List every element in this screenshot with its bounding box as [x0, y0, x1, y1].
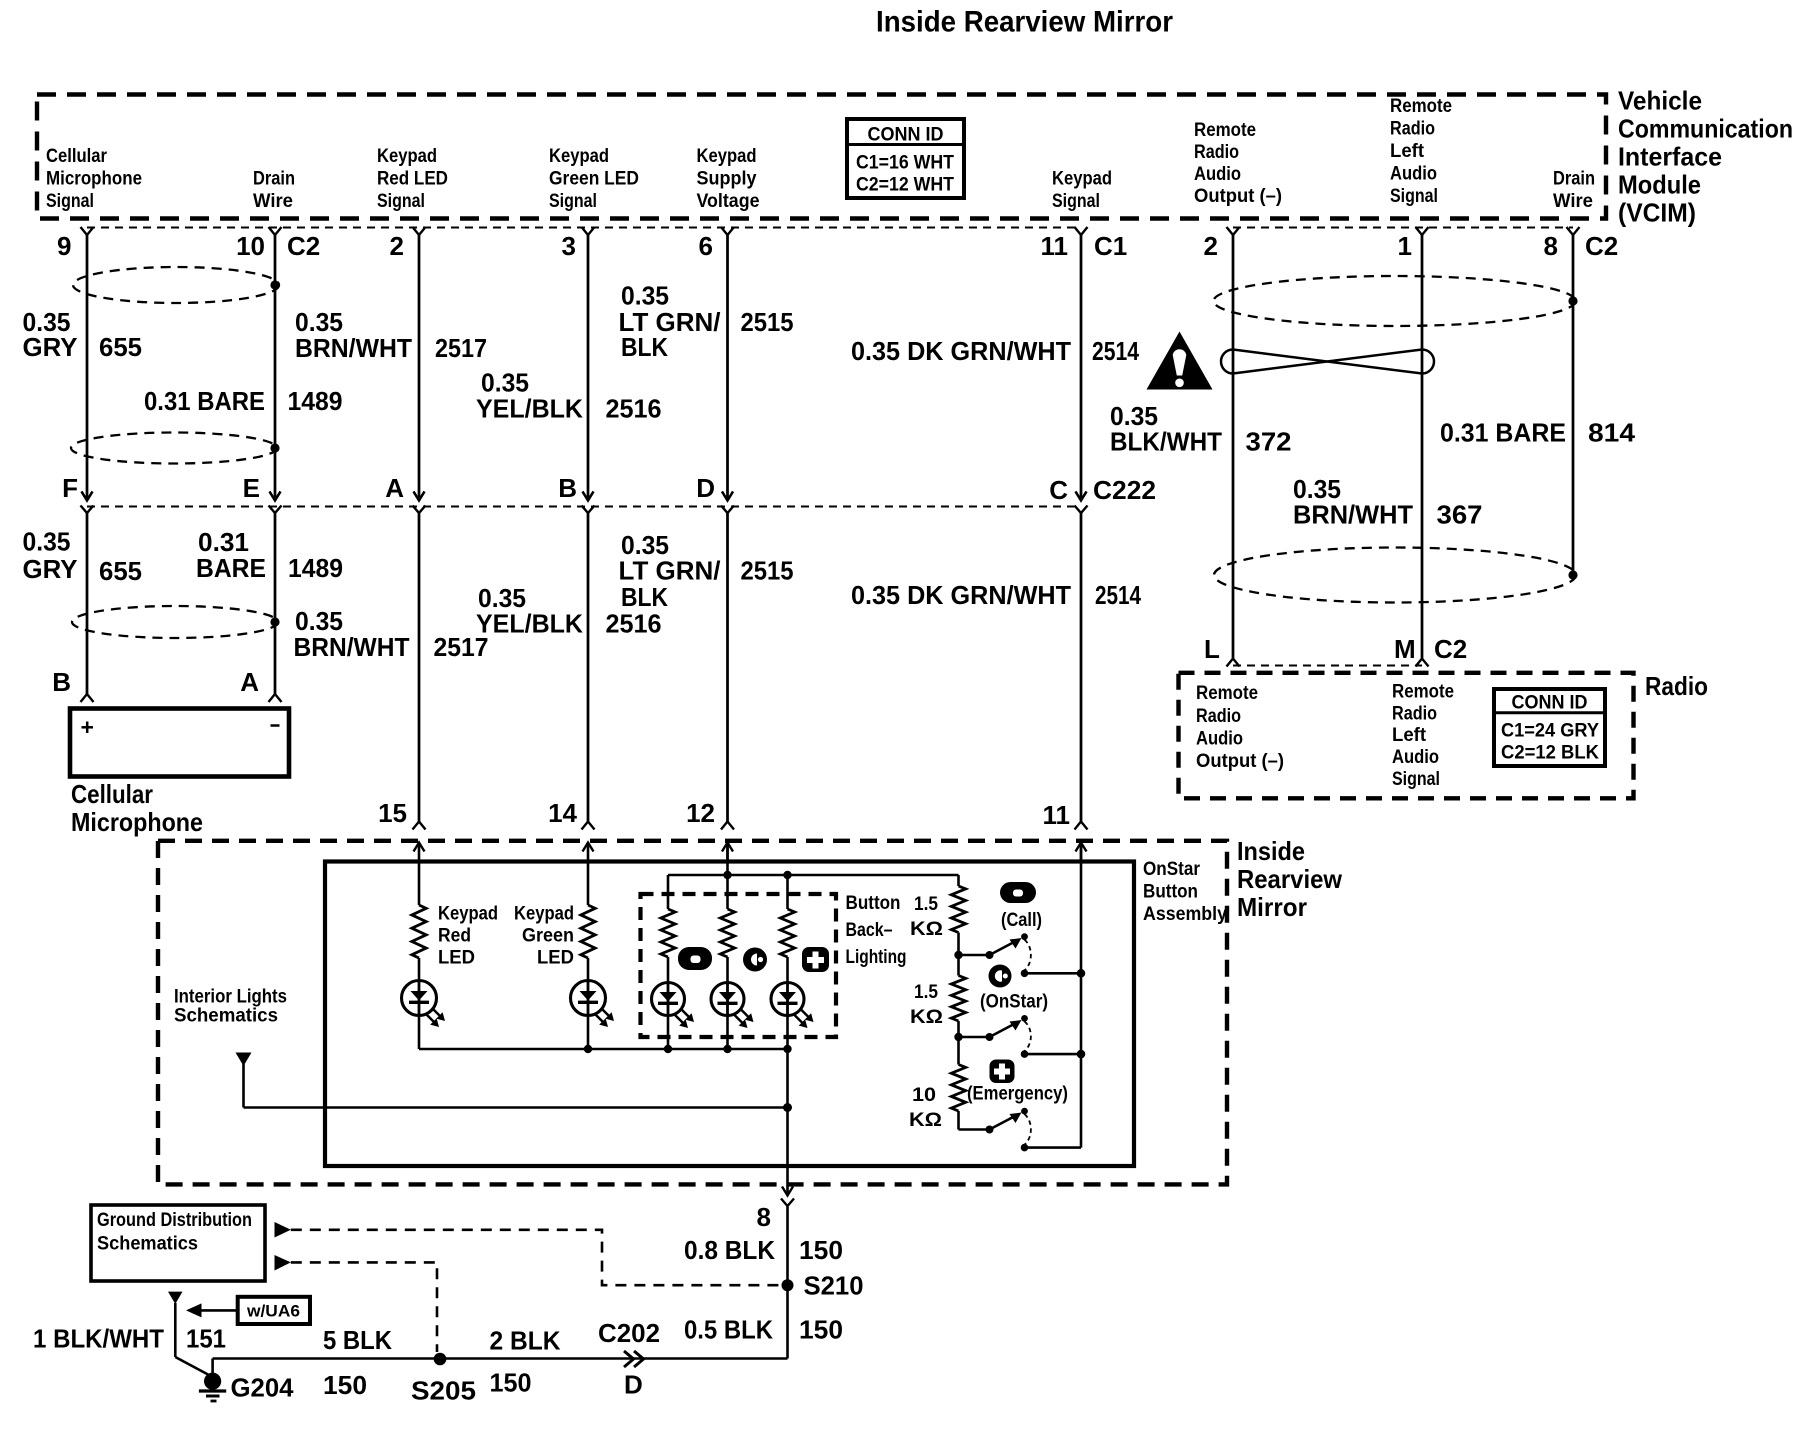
svg-text:150: 150: [323, 1370, 367, 1400]
svg-text:Radio: Radio: [1194, 142, 1239, 163]
wire 655 cellular microphone signal segment 1: [86, 235, 89, 501]
svg-text:Signal: Signal: [1390, 186, 1438, 207]
wire 2517 segment 2: [418, 513, 421, 822]
svg-text:BLK: BLK: [621, 332, 668, 362]
LED backlight 1: [652, 983, 685, 1016]
shield ellipse lower (mic signal/drain): [71, 433, 277, 464]
svg-text:Schematics: Schematics: [174, 1006, 278, 1027]
svg-text:(Call): (Call): [1001, 910, 1042, 931]
with UA6 option tag box: [238, 1297, 310, 1324]
svg-text:Wire: Wire: [1553, 191, 1593, 212]
dashed reference wire to S205: [291, 1262, 437, 1352]
svg-text:814: 814: [1588, 418, 1636, 448]
svg-text:Audio: Audio: [1390, 164, 1437, 185]
component cellular microphone box: [70, 709, 289, 777]
svg-text:Vehicle: Vehicle: [1618, 86, 1702, 116]
svg-text:Signal: Signal: [377, 191, 425, 212]
in-line connector C202 chevrons: [624, 1351, 634, 1367]
svg-text:150: 150: [799, 1315, 843, 1345]
svg-text:1: 1: [1398, 231, 1412, 261]
junction dot supply bus at middle backlight resistor: [723, 871, 731, 879]
svg-text:Remote: Remote: [1392, 682, 1454, 703]
svg-text:A: A: [240, 667, 259, 697]
svg-text:Signal: Signal: [1052, 191, 1100, 212]
svg-text:(VCIM): (VCIM): [1618, 198, 1696, 228]
svg-text:Keypad: Keypad: [1052, 169, 1112, 190]
resistor keypad green LED series: [587, 862, 590, 906]
svg-text:CONN ID: CONN ID: [868, 125, 944, 146]
svg-text:C2=12 BLK: C2=12 BLK: [1501, 743, 1599, 764]
splice dot on drain wire at lower shield: [270, 443, 279, 452]
ground G204 symbol: [204, 1373, 221, 1390]
VCIM terminal Y connector pin 9: [81, 227, 94, 235]
splice S205: [434, 1353, 447, 1366]
svg-text:D: D: [696, 473, 715, 503]
in-line connector C222 terminal A: [414, 492, 425, 501]
svg-text:Audio: Audio: [1392, 747, 1439, 768]
OnStar button assembly solid box: [325, 862, 1134, 1167]
in-line connector C222 dashed line: [87, 506, 1081, 508]
svg-text:C1: C1: [1094, 231, 1127, 261]
svg-text:Communication: Communication: [1618, 114, 1793, 144]
junction dot cathode bus at backlight 3: [783, 1045, 791, 1053]
svg-text:0.35: 0.35: [621, 281, 669, 311]
wire 2515 keypad supply segment 1: [726, 235, 729, 501]
svg-text:150: 150: [490, 1368, 532, 1398]
wire 2515 segment 2: [726, 513, 729, 822]
icon emergency button (switch): [990, 1060, 1015, 1084]
svg-text:Interface: Interface: [1618, 142, 1722, 172]
VCIM terminal Y connector pin 6 C1: [721, 227, 734, 235]
junction dot cathode bus at green LED: [584, 1045, 592, 1053]
switch SW3 emergency button: [959, 1128, 990, 1131]
svg-text:M: M: [1394, 634, 1416, 664]
wire keypad supply into bus: [726, 843, 729, 876]
svg-text:1 BLK/WHT: 1 BLK/WHT: [33, 1324, 164, 1354]
svg-text:655: 655: [99, 332, 142, 362]
svg-text:Output (–): Output (–): [1196, 751, 1284, 772]
in-line connector C222 terminal F: [82, 492, 93, 501]
wire 1489 drain wire segment 1: [274, 235, 277, 501]
LED backlight 2: [711, 983, 744, 1016]
VCIM terminal Y connector pin 10: [269, 227, 282, 235]
svg-text:BRN/WHT: BRN/WHT: [294, 632, 410, 662]
svg-text:LT GRN/: LT GRN/: [619, 556, 721, 586]
svg-text:L: L: [1204, 634, 1220, 664]
svg-text:Mirror: Mirror: [1237, 892, 1307, 922]
component Radio dashed box: [1179, 673, 1634, 799]
CONN ID table for radio connectors: [1494, 689, 1605, 766]
mic polarity minus: [271, 724, 280, 727]
svg-text:Red LED: Red LED: [377, 169, 448, 190]
svg-text:Radio: Radio: [1390, 119, 1435, 140]
resistor R3 10 Kohm: [951, 1065, 965, 1112]
svg-text:Microphone: Microphone: [46, 169, 142, 190]
wire 2514 segment 2: [1080, 513, 1083, 822]
module box U1 Vehicle Communication Interface Module (VCIM) dashed outline: [37, 95, 1606, 219]
shield ellipse upper right (audio pair/drain): [1214, 276, 1576, 326]
svg-text:Remote: Remote: [1194, 120, 1256, 141]
junction dot backlight return to ground wire: [783, 1103, 792, 1112]
LED keypad red: [402, 981, 437, 1016]
interior lights reference arrow 2 (solid triangle down): [168, 1292, 183, 1304]
reference arrow 2 to ground distribution: [275, 1255, 291, 1271]
svg-text:Button: Button: [846, 893, 901, 914]
svg-text:(Emergency): (Emergency): [967, 1084, 1068, 1105]
svg-text:Cellular: Cellular: [71, 779, 153, 809]
svg-text:9: 9: [57, 231, 71, 261]
wire 150 0.8 BLK segment: [786, 1206, 789, 1359]
switch SW1 call button: [959, 954, 990, 957]
mic polarity plus: [82, 726, 94, 729]
reference arrow 1 to ground distribution: [275, 1222, 291, 1238]
keypad signal bus from pin 11: [1080, 843, 1083, 1148]
svg-text:2514: 2514: [1095, 580, 1141, 610]
svg-text:Output (–): Output (–): [1194, 186, 1282, 207]
svg-text:B: B: [558, 473, 577, 503]
svg-text:Green: Green: [522, 926, 574, 947]
svg-text:Keypad: Keypad: [697, 146, 757, 167]
resistor R2 1.5 Kohm: [951, 976, 965, 1022]
twisted pair symbol between audio wires: [1221, 350, 1434, 374]
svg-text:Inside: Inside: [1237, 836, 1305, 866]
resistor backlight 1: [667, 875, 670, 909]
svg-text:0.5 BLK: 0.5 BLK: [684, 1315, 773, 1345]
svg-text:0.8 BLK: 0.8 BLK: [684, 1235, 775, 1265]
svg-text:Back–: Back–: [846, 920, 893, 941]
svg-text:B: B: [52, 667, 71, 697]
supply top bus in button assembly: [668, 874, 959, 877]
svg-text:2517: 2517: [435, 333, 487, 363]
svg-text:C1=16 WHT: C1=16 WHT: [856, 153, 954, 174]
wire 2516 segment 2: [587, 513, 590, 822]
junction dot cathode bus at backlight 1: [664, 1045, 672, 1053]
svg-text:Schematics: Schematics: [97, 1234, 198, 1255]
svg-text:A: A: [385, 473, 404, 503]
svg-text:8: 8: [757, 1202, 771, 1232]
arrow from UA6 tag to wire: [201, 1309, 238, 1312]
wire 367 remote radio left audio segment: [1421, 235, 1424, 659]
svg-text:2 BLK: 2 BLK: [490, 1326, 561, 1356]
splice dot on drain wire at upper shield: [270, 280, 279, 289]
svg-text:1489: 1489: [288, 553, 343, 583]
svg-text:2: 2: [1204, 231, 1218, 261]
resistor backlight 3: [786, 875, 789, 909]
junction dot cathode bus at backlight 2: [723, 1045, 731, 1053]
svg-text:C2: C2: [1434, 634, 1467, 664]
svg-text:GRY: GRY: [23, 332, 78, 362]
svg-text:1.5: 1.5: [914, 894, 938, 915]
warning triangle symbol: [1147, 332, 1213, 390]
svg-text:150: 150: [799, 1235, 843, 1265]
svg-text:Drain: Drain: [253, 169, 295, 190]
icon onstar button (backlight): [743, 948, 767, 972]
svg-text:Radio: Radio: [1196, 706, 1241, 727]
svg-text:Keypad: Keypad: [549, 146, 609, 167]
svg-text:12: 12: [686, 798, 715, 828]
in-line connector C222 terminal E: [270, 492, 281, 501]
svg-text:OnStar: OnStar: [1143, 859, 1201, 880]
wire 814 drain wire segment: [1572, 235, 1575, 575]
svg-text:Signal: Signal: [46, 191, 94, 212]
junction dot R1/R2: [954, 951, 962, 959]
radio connector dashed pin line: [1233, 665, 1422, 667]
wire 2514 keypad signal segment 1: [1080, 235, 1083, 501]
resistor chain top wire: [957, 875, 960, 886]
svg-text:Audio: Audio: [1194, 164, 1241, 185]
svg-text:KΩ: KΩ: [909, 1110, 942, 1131]
svg-text:367: 367: [1437, 500, 1483, 530]
svg-text:Red: Red: [438, 926, 471, 947]
shield ellipse (mic pair) section 2: [72, 606, 278, 638]
svg-text:2514: 2514: [1092, 336, 1139, 366]
svg-text:Radio: Radio: [1392, 704, 1437, 725]
junction dot SW1 throw on bus: [1077, 969, 1085, 977]
svg-text:YEL/BLK: YEL/BLK: [476, 394, 583, 424]
VCIM terminal Y connector pin 8 C2 drain: [1567, 227, 1580, 235]
switch SW2 onstar button: [959, 1036, 990, 1039]
LED cathode return bus: [419, 1048, 788, 1051]
svg-text:151: 151: [186, 1324, 226, 1354]
VCIM terminal Y connector pin 2 C1: [413, 227, 426, 235]
svg-text:C2: C2: [1585, 231, 1618, 261]
svg-text:LED: LED: [537, 948, 574, 969]
mirror box entry connector pin 12: [722, 843, 733, 852]
wire 372 remote radio audio output segment: [1232, 235, 1235, 659]
svg-text:BRN/WHT: BRN/WHT: [295, 333, 412, 363]
in-line connector C222 terminal B: [583, 492, 594, 501]
junction dot SW2 throw on bus: [1077, 1050, 1085, 1058]
svg-text:2: 2: [390, 231, 404, 261]
LED backlight 3: [771, 983, 804, 1016]
svg-text:372: 372: [1246, 427, 1292, 457]
resistor keypad red LED series: [418, 862, 421, 906]
svg-text:E: E: [243, 473, 260, 503]
svg-text:CONN ID: CONN ID: [1512, 693, 1588, 714]
svg-text:KΩ: KΩ: [910, 1007, 943, 1028]
svg-text:C: C: [1049, 475, 1068, 505]
VCIM connector pin row dashed line (right group): [1233, 227, 1573, 229]
resistor R1 1.5 Kohm: [951, 886, 965, 933]
mirror box exit connector (ground): [782, 1187, 793, 1196]
svg-text:BRN/WHT: BRN/WHT: [1293, 500, 1413, 530]
svg-text:Drain: Drain: [1553, 169, 1595, 190]
wire 1489 segment 2: [274, 513, 277, 694]
svg-text:Rearview: Rearview: [1237, 864, 1343, 894]
svg-text:0.35 DK GRN/WHT: 0.35 DK GRN/WHT: [851, 336, 1071, 366]
svg-text:2516: 2516: [606, 609, 662, 639]
svg-text:Left: Left: [1392, 725, 1427, 746]
in-line connector C222 terminal C: [1076, 492, 1087, 501]
svg-text:3: 3: [562, 231, 576, 261]
wire from interior lights reference: [242, 1064, 245, 1108]
svg-text:Keypad: Keypad: [438, 904, 498, 925]
svg-text:w/UA6: w/UA6: [246, 1302, 300, 1321]
svg-text:GRY: GRY: [23, 554, 78, 584]
button back-lighting dashed box: [641, 894, 837, 1037]
splice S210: [782, 1279, 794, 1291]
component Inside Rearview Mirror dashed box: [158, 841, 1227, 1185]
svg-text:10: 10: [236, 231, 265, 261]
svg-text:Cellular: Cellular: [46, 146, 108, 167]
svg-text:C2: C2: [287, 231, 320, 261]
svg-text:0.35 DK GRN/WHT: 0.35 DK GRN/WHT: [851, 580, 1071, 610]
svg-text:Button: Button: [1143, 882, 1198, 903]
svg-text:14: 14: [548, 798, 577, 828]
svg-text:BLK: BLK: [621, 582, 668, 612]
wire 151 1 BLK/WHT: [174, 1303, 177, 1357]
svg-text:1489: 1489: [288, 386, 343, 416]
VCIM connector pin row dashed line (C1/C2 pins left group): [87, 227, 1081, 229]
in-line connector C222 terminal D: [722, 492, 733, 501]
svg-text:KΩ: KΩ: [910, 919, 943, 940]
mirror box entry connector pin 14: [583, 843, 594, 852]
svg-text:5 BLK: 5 BLK: [323, 1325, 392, 1355]
svg-text:Remote: Remote: [1196, 683, 1258, 704]
mirror box entry connector pin 11: [1076, 843, 1087, 852]
svg-text:Signal: Signal: [549, 191, 597, 212]
dashed reference wire to S210: [291, 1230, 781, 1285]
svg-text:YEL/BLK: YEL/BLK: [476, 609, 583, 639]
ground distribution schematics reference box: [91, 1205, 265, 1281]
svg-text:8: 8: [1544, 231, 1558, 261]
icon call button (switch): [1000, 882, 1036, 903]
svg-text:Radio: Radio: [1645, 671, 1708, 701]
svg-text:Microphone: Microphone: [71, 807, 203, 837]
svg-text:(OnStar): (OnStar): [980, 992, 1048, 1013]
mirror box entry connector pin 15: [414, 843, 425, 852]
ground bus wire 150: [213, 1357, 788, 1360]
wire 2516 keypad green LED signal segment 1: [587, 235, 590, 501]
svg-text:Lighting: Lighting: [846, 947, 907, 968]
icon emergency button (backlight): [802, 947, 829, 972]
shield ellipse upper (mic signal/drain): [73, 267, 279, 303]
svg-text:C202: C202: [598, 1318, 660, 1348]
svg-text:0.35: 0.35: [23, 527, 71, 557]
junction dot R2/R3: [954, 1033, 962, 1041]
svg-text:Wire: Wire: [253, 191, 293, 212]
svg-text:11: 11: [1043, 800, 1071, 830]
svg-text:Keypad: Keypad: [514, 904, 574, 925]
svg-text:Signal: Signal: [1392, 769, 1440, 790]
svg-text:G204: G204: [231, 1373, 295, 1403]
svg-text:2515: 2515: [741, 307, 794, 337]
svg-text:BLK/WHT: BLK/WHT: [1110, 427, 1222, 457]
svg-text:C1=24 GRY: C1=24 GRY: [1501, 721, 1599, 742]
VCIM terminal Y connector pin 1 C2 left audio: [1416, 227, 1429, 235]
resistor backlight 2: [726, 875, 729, 909]
wire 2517 keypad red LED signal segment 1: [418, 235, 421, 501]
svg-text:2516: 2516: [606, 394, 662, 424]
svg-text:15: 15: [378, 798, 407, 828]
svg-text:S210: S210: [804, 1271, 864, 1301]
svg-text:0.31 BARE: 0.31 BARE: [1440, 418, 1566, 448]
svg-text:0.31 BARE: 0.31 BARE: [144, 386, 265, 416]
VCIM terminal Y connector pin 11 C1: [1075, 227, 1088, 235]
svg-text:Audio: Audio: [1196, 729, 1243, 750]
VCIM terminal Y connector pin 2 C2 radio out: [1227, 227, 1240, 235]
CONN ID table for VCIM connectors: [847, 119, 964, 198]
svg-text:Module: Module: [1618, 170, 1701, 200]
svg-text:655: 655: [99, 556, 142, 586]
svg-text:Keypad: Keypad: [377, 146, 437, 167]
svg-text:BARE: BARE: [196, 553, 266, 583]
svg-text:F: F: [62, 473, 78, 503]
svg-text:Remote: Remote: [1390, 96, 1452, 117]
svg-text:Interior Lights: Interior Lights: [174, 987, 287, 1008]
svg-text:Inside Rearview Mirror: Inside Rearview Mirror: [876, 6, 1173, 39]
svg-text:Voltage: Voltage: [697, 191, 760, 212]
svg-text:10: 10: [912, 1085, 936, 1106]
svg-text:Supply: Supply: [697, 169, 757, 190]
ground return wire inside assembly: [786, 1049, 789, 1196]
svg-text:Left: Left: [1390, 141, 1425, 162]
svg-text:C222: C222: [1093, 475, 1156, 505]
icon onstar button (switch): [989, 965, 1012, 988]
svg-text:1.5: 1.5: [914, 982, 938, 1003]
svg-text:C2=12 WHT: C2=12 WHT: [856, 175, 954, 196]
junction dot supply bus at right backlight resistor: [783, 871, 791, 879]
svg-text:6: 6: [699, 231, 713, 261]
icon call button (backlight): [678, 947, 712, 970]
LED keypad green: [571, 981, 606, 1016]
svg-text:2515: 2515: [741, 556, 794, 586]
wire 655 segment 2: [86, 513, 89, 694]
svg-text:Green LED: Green LED: [549, 169, 639, 190]
splice dot on drain wire section 2: [270, 617, 279, 626]
svg-text:LED: LED: [438, 948, 475, 969]
svg-text:Ground Distribution: Ground Distribution: [97, 1210, 252, 1231]
svg-text:S205: S205: [411, 1376, 476, 1406]
shield ellipse lower right (audio pair/drain): [1214, 548, 1576, 603]
svg-text:Assembly: Assembly: [1143, 904, 1227, 925]
VCIM terminal Y connector pin 3 C1: [582, 227, 595, 235]
interior lights reference arrow (solid triangle down): [236, 1053, 252, 1067]
svg-text:D: D: [624, 1370, 643, 1400]
svg-text:11: 11: [1041, 231, 1069, 261]
